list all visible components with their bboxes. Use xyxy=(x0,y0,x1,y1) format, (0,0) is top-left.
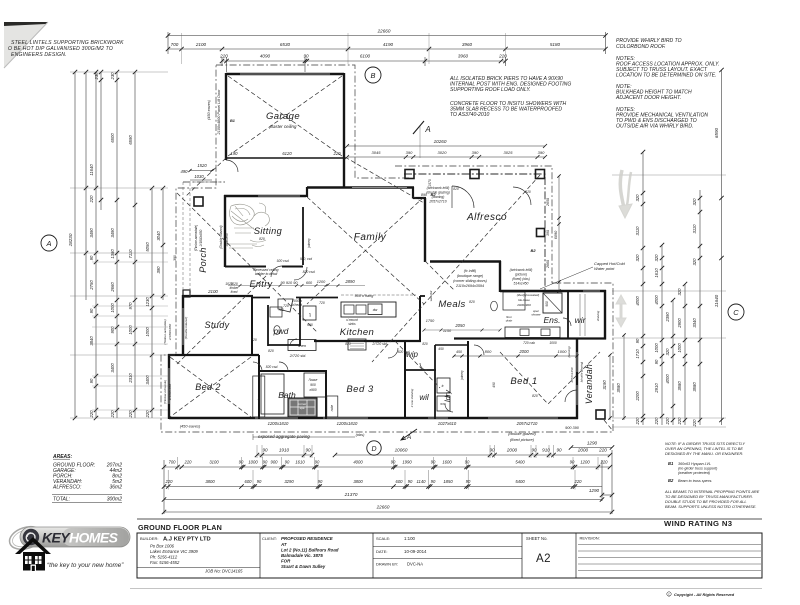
linen cupboard xyxy=(288,340,316,351)
interior dim line meals y330 xyxy=(423,329,502,332)
svg-text:3110: 3110 xyxy=(635,226,640,236)
svg-text:(Timber-armadale): (Timber-armadale) xyxy=(163,319,167,345)
svg-text:2890: 2890 xyxy=(344,279,355,284)
dimension alfresco right 2650/390/2660 xyxy=(546,174,561,292)
svg-text:ADJACENT DOOR HEIGHT.: ADJACENT DOOR HEIGHT. xyxy=(615,95,681,101)
svg-text:SHEET No.: SHEET No. xyxy=(526,536,548,541)
alfresco beam B2 dash-dot xyxy=(404,170,545,292)
svg-text:ALFRESCO:: ALFRESCO: xyxy=(52,485,82,491)
note B1 legend xyxy=(668,461,718,475)
extension lines right xyxy=(612,175,726,427)
svg-text:OUTSIDE AIR VIA WHIRLY BIR: OUTSIDE AIR VIA WHIRLY BIRD. xyxy=(616,124,693,130)
svg-text:3110: 3110 xyxy=(692,224,697,234)
svg-text:1230: 1230 xyxy=(145,297,150,307)
svg-text:22660: 22660 xyxy=(376,505,390,510)
dimension column left 5050/1230 xyxy=(145,186,154,419)
bottom window labels xyxy=(180,421,580,442)
svg-text:1380: 1380 xyxy=(110,249,115,259)
note whirly bird xyxy=(616,38,682,50)
wall study left xyxy=(182,295,184,356)
svg-text:6530: 6530 xyxy=(280,42,291,47)
svg-text:2/1800x850: 2/1800x850 xyxy=(199,229,203,247)
svg-text:2000: 2000 xyxy=(577,448,589,453)
extension lines top xyxy=(182,33,506,64)
dimension column right 610/624 verandah xyxy=(602,333,626,420)
svg-text:(fixed picture): (fixed picture) xyxy=(510,437,535,442)
porch dashed boundary xyxy=(183,182,225,296)
svg-text:Lakes Entrance VIC 3909: Lakes Entrance VIC 3909 xyxy=(150,549,198,554)
svg-text:10260: 10260 xyxy=(434,139,447,144)
svg-text:390: 390 xyxy=(472,150,479,155)
sheet cell xyxy=(526,536,551,565)
svg-text:220: 220 xyxy=(598,448,607,453)
svg-text:820 csd.: 820 csd. xyxy=(266,365,279,369)
svg-text:spa: spa xyxy=(300,406,305,410)
note mech ventilation xyxy=(616,107,708,130)
svg-text:18230: 18230 xyxy=(68,233,73,246)
wall ldry top xyxy=(435,344,468,346)
svg-text:(450 eaves): (450 eaves) xyxy=(207,99,211,120)
svg-text:514x1450: 514x1450 xyxy=(514,282,529,286)
ens vanity xyxy=(505,327,560,338)
svg-text:l'base: l'base xyxy=(309,378,318,382)
svg-text:320: 320 xyxy=(665,348,670,356)
svg-text:(boutique range): (boutique range) xyxy=(457,274,483,278)
svg-text:900 o'hang: 900 o'hang xyxy=(355,294,375,298)
svg-text:DESIGNED BY THE MANU. OR ENGIN: DESIGNED BY THE MANU. OR ENGINEER. xyxy=(665,451,743,456)
svg-text:1610: 1610 xyxy=(654,268,659,278)
dimension column right 685 xyxy=(677,282,687,426)
svg-text:6590: 6590 xyxy=(128,135,133,145)
svg-text:(corner sliding doors): (corner sliding doors) xyxy=(453,279,487,283)
svg-text:5400: 5400 xyxy=(515,460,525,465)
wall ldry/bed1 divider xyxy=(467,341,469,419)
svg-text:shower: shower xyxy=(531,313,541,317)
svg-text:Meals: Meals xyxy=(438,299,465,310)
garage door annotation xyxy=(207,89,221,136)
svg-text:700: 700 xyxy=(171,42,179,47)
svg-text:36m2: 36m2 xyxy=(109,485,122,491)
svg-text:6100: 6100 xyxy=(360,54,371,59)
svg-text:Water point: Water point xyxy=(594,266,615,271)
porch window labels xyxy=(194,225,229,251)
svg-text:TO AS3740-2010: TO AS3740-2010 xyxy=(450,112,490,118)
kitchen annotations xyxy=(283,294,465,333)
svg-text:2000: 2000 xyxy=(518,349,529,354)
svg-text:shelving: shelving xyxy=(596,310,600,321)
svg-text:1710: 1710 xyxy=(635,349,640,359)
wall sitting bottom xyxy=(225,266,303,268)
svg-text:320: 320 xyxy=(635,194,640,202)
svg-text:2100: 2100 xyxy=(207,289,218,294)
wall ens-wir top xyxy=(500,290,606,292)
svg-text:Kitchen: Kitchen xyxy=(340,327,375,338)
svg-text:GROUND FLOOR PLAN: GROUND FLOOR PLAN xyxy=(138,523,222,532)
dimension row bottom 3 xyxy=(162,479,602,489)
svg-text:(450 eaves): (450 eaves) xyxy=(180,424,201,429)
dimension row top garage 220/4090/90/6100/3960/220 xyxy=(219,54,508,73)
svg-text:2000: 2000 xyxy=(506,448,518,453)
svg-text:(no girder truss support): (no girder truss support) xyxy=(678,467,718,471)
scale cell xyxy=(373,536,522,567)
bed2 robe xyxy=(253,376,265,417)
svg-text:1150: 1150 xyxy=(443,329,452,333)
svg-text:Ens.: Ens. xyxy=(543,315,560,325)
svg-text:A: A xyxy=(424,125,430,134)
wall meals/kitchen spur xyxy=(420,295,425,297)
svg-text:2100x4800 Panel Lift Door: 2100x4800 Panel Lift Door xyxy=(217,89,221,136)
section marker A top xyxy=(413,121,431,158)
dimension row bottom 2 xyxy=(162,460,612,470)
svg-text:AT: AT xyxy=(280,542,287,547)
svg-text:(brickwork infill): (brickwork infill) xyxy=(510,268,533,272)
svg-text:1990: 1990 xyxy=(402,460,412,465)
svg-text:360x63 Hyspan LVL: 360x63 Hyspan LVL xyxy=(678,462,711,466)
svg-text:2/1800x850: 2/1800x850 xyxy=(168,324,172,341)
bath fixtures corner spa xyxy=(288,398,317,417)
svg-text:90: 90 xyxy=(318,479,323,484)
wall left lower (bed2) xyxy=(168,354,170,419)
note bulkhead xyxy=(615,84,692,101)
svg-text:2200: 2200 xyxy=(635,391,640,402)
title block frame xyxy=(137,533,762,578)
svg-text:KEY: KEY xyxy=(42,530,71,546)
svg-text:builder to detail: builder to detail xyxy=(255,272,278,276)
svg-text:450: 450 xyxy=(456,350,462,354)
svg-text:820: 820 xyxy=(525,190,531,194)
svg-text:Fax: 5156-4552: Fax: 5156-4552 xyxy=(150,560,180,565)
svg-text:22660: 22660 xyxy=(377,29,391,34)
note all beams xyxy=(664,489,760,509)
svg-text:220: 220 xyxy=(498,54,507,59)
svg-text:820: 820 xyxy=(259,237,265,241)
svg-text:Entry: Entry xyxy=(249,279,272,289)
svg-text:820: 820 xyxy=(345,342,351,346)
title strip top rule xyxy=(137,518,762,520)
svg-text:2660: 2660 xyxy=(546,260,550,269)
wall kitchen right xyxy=(419,296,421,342)
roof dashed garage X xyxy=(228,76,342,156)
family window stack xyxy=(421,179,450,203)
svg-text:390: 390 xyxy=(156,266,161,274)
svg-text:REVISION:: REVISION: xyxy=(580,536,600,541)
svg-text:2057x2710: 2057x2710 xyxy=(516,421,538,426)
pwd fixtures xyxy=(270,307,282,334)
capped water point note xyxy=(540,261,625,289)
svg-text:2100: 2100 xyxy=(195,42,207,47)
svg-text:Bath: Bath xyxy=(278,390,296,400)
svg-text:TOTAL:: TOTAL: xyxy=(53,497,71,503)
svg-text:3025: 3025 xyxy=(504,150,514,155)
svg-text:B2: B2 xyxy=(668,478,674,483)
svg-text:“the key to your new home”: “the key to your new home” xyxy=(47,562,124,569)
svg-text:(picture): (picture) xyxy=(515,273,527,277)
svg-text:1570: 1570 xyxy=(428,179,432,187)
svg-text:3800: 3800 xyxy=(205,479,215,484)
svg-text:390: 390 xyxy=(538,150,545,155)
svg-text:820: 820 xyxy=(532,394,538,398)
wall study right xyxy=(251,296,253,356)
svg-text:tile-base: tile-base xyxy=(518,298,530,302)
svg-text:4000: 4000 xyxy=(665,374,670,384)
wall bed1 right / verandah xyxy=(576,338,578,419)
svg-text:90: 90 xyxy=(263,460,268,465)
verandah corner post xyxy=(596,410,605,419)
dimension column right 673 xyxy=(665,298,675,426)
svg-text:joinery: joinery xyxy=(307,238,311,249)
svg-text:220: 220 xyxy=(145,410,150,419)
svg-text:1027x610: 1027x610 xyxy=(438,421,457,426)
svg-text:3400: 3400 xyxy=(110,363,115,373)
svg-text:220: 220 xyxy=(89,195,94,204)
svg-text:2/720 sld.: 2/720 sld. xyxy=(289,354,306,358)
svg-text:b'head: b'head xyxy=(292,303,302,307)
svg-text:(Double Glazed): (Double Glazed) xyxy=(219,225,223,248)
svg-text:joinery: joinery xyxy=(460,370,464,381)
svg-text:1290: 1290 xyxy=(587,441,598,446)
revision cell xyxy=(578,536,761,571)
svg-text:230: 230 xyxy=(110,72,115,81)
svg-text:robe: robe xyxy=(330,405,334,412)
svg-text:2900: 2900 xyxy=(677,318,682,329)
svg-text:920, csd: 920, csd xyxy=(300,257,312,261)
svg-text:3490: 3490 xyxy=(89,228,94,238)
svg-text:900: 900 xyxy=(545,301,549,307)
porch dims 1520/490/1030 xyxy=(181,163,214,180)
dimension row top 22660 xyxy=(166,29,608,55)
dimension column left 6590/7110/970/2310 xyxy=(128,70,137,419)
svg-text:B1: B1 xyxy=(230,119,235,123)
svg-text:220: 220 xyxy=(89,410,94,419)
copyright xyxy=(667,592,735,597)
areas table xyxy=(52,454,122,503)
svg-text:1000: 1000 xyxy=(654,343,659,353)
svg-text:(obs): (obs) xyxy=(356,432,366,437)
wall wil/ldry divider xyxy=(434,345,436,419)
svg-text:B2: B2 xyxy=(530,248,536,253)
svg-text:11640: 11640 xyxy=(89,164,94,176)
interior dim line entry y285 xyxy=(228,284,365,287)
svg-text:1910: 1910 xyxy=(279,448,290,453)
svg-text:220: 220 xyxy=(600,460,609,465)
svg-text:2057x1450: 2057x1450 xyxy=(570,367,574,383)
svg-text:820 csd.: 820 csd. xyxy=(398,350,411,354)
svg-text:1610: 1610 xyxy=(295,460,305,465)
svg-text:800: 800 xyxy=(485,349,492,354)
svg-text:4000: 4000 xyxy=(635,296,640,306)
dimension 1290 right xyxy=(569,441,614,450)
svg-text:B: B xyxy=(370,71,375,80)
pwd shower quad xyxy=(278,299,293,312)
svg-text:SCALE:: SCALE: xyxy=(376,536,390,541)
svg-text:320: 320 xyxy=(635,254,640,262)
svg-text:(Double Glazed): (Double Glazed) xyxy=(184,317,188,340)
svg-text:720 cab: 720 cab xyxy=(523,341,535,345)
svg-text:1750: 1750 xyxy=(426,319,435,323)
svg-text:LOCATION TO BE DETERMINED: LOCATION TO BE DETERMINED ON SITE. xyxy=(616,73,717,79)
svg-text:820: 820 xyxy=(251,338,257,342)
svg-text:4 row shelving: 4 row shelving xyxy=(410,388,414,407)
svg-text:3840: 3840 xyxy=(89,336,94,346)
dimension column left 230/6500/.../3400 xyxy=(110,70,119,419)
svg-text:900: 900 xyxy=(271,460,279,465)
svg-text:2660: 2660 xyxy=(110,282,115,293)
bath tub xyxy=(261,374,284,414)
svg-text:1600: 1600 xyxy=(442,460,452,465)
svg-text:220: 220 xyxy=(574,479,583,484)
svg-text:1000: 1000 xyxy=(248,460,258,465)
svg-text:CLIENT:: CLIENT: xyxy=(262,536,277,541)
svg-text:3040: 3040 xyxy=(156,231,161,241)
svg-text:plaster ceiling: plaster ceiling xyxy=(269,124,297,129)
wall sitting top xyxy=(224,195,306,197)
svg-text:720: 720 xyxy=(283,304,289,308)
svg-text:220: 220 xyxy=(692,419,697,428)
svg-text:(double glazing): (double glazing) xyxy=(580,362,584,383)
svg-text:Alfresco: Alfresco xyxy=(466,212,507,223)
wall wip/wil divider xyxy=(405,369,436,371)
note B2 legend xyxy=(668,478,712,483)
note roof access xyxy=(616,56,720,79)
grid bubble A xyxy=(41,235,57,251)
svg-text:Verandah: Verandah xyxy=(584,364,594,404)
builder cell xyxy=(137,536,260,574)
section marker A bottom xyxy=(401,429,417,441)
ens tile base xyxy=(503,292,525,310)
svg-text:90: 90 xyxy=(570,460,575,465)
svg-text:600: 600 xyxy=(306,281,313,285)
svg-text:Porch: Porch xyxy=(198,247,208,273)
svg-text:90: 90 xyxy=(257,479,262,484)
bed3 robe xyxy=(327,396,338,417)
svg-text:Po Box 1006: Po Box 1006 xyxy=(150,544,175,549)
svg-text:A.J KEY PTY LTD: A.J KEY PTY LTD xyxy=(163,537,211,543)
svg-text:2057x2710: 2057x2710 xyxy=(428,200,446,204)
svg-text:2/720 sld.: 2/720 sld. xyxy=(371,342,387,346)
svg-text:x900: x900 xyxy=(308,388,316,392)
alfresco top dim 10260 xyxy=(345,139,547,159)
door arcs xyxy=(226,160,577,412)
svg-text:Study: Study xyxy=(204,320,229,330)
svg-text:A: A xyxy=(406,434,411,441)
wall alfresco south + east xyxy=(430,261,501,292)
svg-text:2650: 2650 xyxy=(546,198,550,207)
svg-text:robe: robe xyxy=(257,397,261,404)
wall entry / kitchen north xyxy=(252,297,338,299)
dimension row bottom 22660 xyxy=(162,450,614,514)
sheet bottom rule xyxy=(130,588,762,590)
svg-text:90: 90 xyxy=(489,448,495,453)
svg-text:390: 390 xyxy=(173,255,177,261)
svg-text:Stuart & Dawn Sulley: Stuart & Dawn Sulley xyxy=(281,564,326,569)
sitting furniture sketch xyxy=(227,203,269,248)
svg-text:Family: Family xyxy=(354,232,387,243)
dimension column left 3040 xyxy=(156,186,165,300)
note girder truss xyxy=(665,441,745,456)
svg-text:5180: 5180 xyxy=(550,42,561,47)
svg-text:3490: 3490 xyxy=(110,228,115,238)
svg-text:Bed 1: Bed 1 xyxy=(510,376,537,387)
svg-text:1:100: 1:100 xyxy=(404,536,416,541)
note top-left lintels xyxy=(8,40,124,58)
svg-text:4000: 4000 xyxy=(654,295,659,305)
svg-text:(Timber-armadale): (Timber-armadale) xyxy=(194,225,198,251)
misc door labels xyxy=(251,187,557,381)
svg-text:600: 600 xyxy=(245,479,253,484)
svg-text:90: 90 xyxy=(465,460,470,465)
svg-text:dw: dw xyxy=(373,308,378,312)
entry annotations xyxy=(230,237,356,294)
svg-text:2050: 2050 xyxy=(454,323,465,328)
svg-text:BEAM. SUPPORTS UNLESS NOTED OT: BEAM. SUPPORTS UNLESS NOTED OTHERWISE. xyxy=(665,504,757,509)
svg-text:450: 450 xyxy=(438,347,444,351)
svg-text:BUILDER:: BUILDER: xyxy=(140,536,158,541)
svg-text:WIND RATING N3: WIND RATING N3 xyxy=(664,519,732,528)
svg-text:4090: 4090 xyxy=(260,54,271,59)
svg-text:(double glazed): (double glazed) xyxy=(508,431,536,436)
svg-text:Ph: 5156-4112: Ph: 5156-4112 xyxy=(150,555,178,560)
meals window stack xyxy=(510,268,533,286)
torn corner artifact top-left xyxy=(4,22,48,68)
svg-text:(weather protected): (weather protected) xyxy=(678,471,711,475)
svg-text:C: C xyxy=(733,308,739,317)
svg-text:6500: 6500 xyxy=(110,133,115,143)
svg-text:JOB No: DVC14165: JOB No: DVC14165 xyxy=(204,569,243,574)
svg-text:90: 90 xyxy=(408,479,413,484)
svg-text:PROPOSED RESIDENCE: PROPOSED RESIDENCE xyxy=(281,536,334,541)
svg-text:1000: 1000 xyxy=(677,343,682,353)
svg-text:6090: 6090 xyxy=(554,230,558,239)
svg-text:ENGINEERS DESIGN.: ENGINEERS DESIGN. xyxy=(11,52,67,58)
svg-text:700: 700 xyxy=(169,460,177,465)
extension lines left xyxy=(70,72,168,418)
svg-text:190: 190 xyxy=(231,151,239,156)
svg-text:690: 690 xyxy=(307,323,313,327)
svg-text:tr.: tr. xyxy=(442,384,445,388)
svg-text:3020: 3020 xyxy=(438,150,448,155)
wall ens/bed1 divider xyxy=(454,337,606,339)
svg-text:1140: 1140 xyxy=(416,479,426,484)
svg-text:1200x1810: 1200x1810 xyxy=(337,421,358,426)
note brick piers xyxy=(449,76,571,93)
pencil arrow right upper xyxy=(619,170,632,218)
svg-text:1030: 1030 xyxy=(194,174,204,179)
svg-text:wil: wil xyxy=(419,393,429,402)
svg-text:820: 820 xyxy=(422,342,428,346)
svg-text:2000x900: 2000x900 xyxy=(516,303,531,307)
svg-text:3400: 3400 xyxy=(145,375,150,385)
svg-text:230: 230 xyxy=(94,72,99,81)
svg-text:drain: drain xyxy=(506,319,513,323)
svg-text:10-09-2014: 10-09-2014 xyxy=(404,549,427,554)
svg-text:waterfall: waterfall xyxy=(429,290,433,301)
svg-text:DVC-NA: DVC-NA xyxy=(407,562,423,567)
svg-text:(fixed) (obs): (fixed) (obs) xyxy=(512,277,530,281)
svg-text:5400: 5400 xyxy=(515,479,525,484)
grid bubble D xyxy=(367,441,381,455)
svg-text:2910: 2910 xyxy=(654,383,659,394)
svg-text:Beam to truss specs.: Beam to truss specs. xyxy=(678,479,712,483)
svg-text:220: 220 xyxy=(165,479,174,484)
wall garage outline xyxy=(226,73,344,188)
dimension column right 662 xyxy=(654,243,664,426)
wall family top + right xyxy=(307,187,426,262)
eaves dashed outline xyxy=(161,65,613,432)
svg-text:3100: 3100 xyxy=(209,460,219,465)
svg-text:90: 90 xyxy=(89,378,94,383)
svg-text:1850: 1850 xyxy=(443,479,453,484)
svg-text:1000: 1000 xyxy=(145,327,150,337)
